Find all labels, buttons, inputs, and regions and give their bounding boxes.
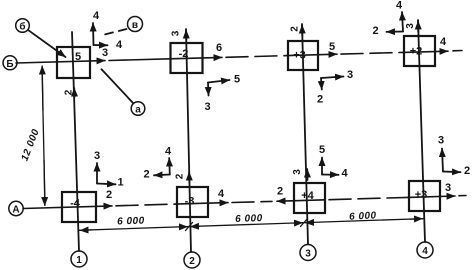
- svg-text:4: 4: [440, 36, 447, 48]
- svg-text:5: 5: [234, 74, 240, 86]
- svg-text:3: 3: [438, 135, 444, 147]
- svg-text:6 000: 6 000: [235, 213, 263, 225]
- svg-text:2: 2: [372, 25, 378, 37]
- svg-text:2: 2: [64, 89, 75, 95]
- svg-text:3: 3: [292, 169, 303, 175]
- svg-text:3: 3: [347, 69, 353, 81]
- svg-text:в: в: [132, 20, 138, 31]
- svg-text:-3: -3: [185, 196, 195, 208]
- svg-text:-4: -4: [70, 198, 81, 210]
- svg-text:5: 5: [319, 144, 325, 156]
- svg-text:3: 3: [204, 101, 210, 113]
- svg-text:2: 2: [317, 94, 323, 106]
- svg-text:4: 4: [93, 10, 100, 22]
- svg-text:2: 2: [143, 169, 149, 181]
- svg-text:4: 4: [165, 146, 172, 158]
- svg-text:6: 6: [216, 42, 222, 54]
- svg-text:А: А: [12, 205, 19, 216]
- svg-text:Б: Б: [6, 59, 13, 70]
- svg-text:2: 2: [464, 165, 470, 177]
- svg-text:3: 3: [445, 182, 451, 194]
- svg-text:3: 3: [405, 23, 416, 29]
- svg-text:2: 2: [290, 26, 301, 32]
- svg-text:+4: +4: [301, 190, 314, 202]
- svg-text:3: 3: [171, 30, 182, 36]
- svg-text:4: 4: [341, 168, 348, 180]
- svg-text:5: 5: [329, 41, 335, 53]
- svg-text:2: 2: [277, 186, 283, 198]
- svg-text:+3: +3: [293, 50, 306, 62]
- svg-text:2: 2: [175, 173, 186, 179]
- svg-text:3: 3: [305, 249, 311, 260]
- svg-text:1: 1: [76, 255, 82, 266]
- svg-text:-2: -2: [179, 48, 189, 60]
- svg-text:12 000: 12 000: [20, 127, 42, 162]
- svg-text:3: 3: [102, 47, 108, 59]
- svg-text:+3: +3: [415, 189, 428, 201]
- svg-text:4: 4: [116, 39, 123, 51]
- svg-text:2: 2: [189, 256, 195, 267]
- svg-text:6 000: 6 000: [117, 216, 145, 228]
- svg-text:2: 2: [106, 189, 112, 201]
- svg-text:1: 1: [117, 177, 123, 189]
- svg-text:а: а: [135, 105, 141, 116]
- svg-text:4: 4: [218, 188, 225, 200]
- svg-text:4: 4: [422, 246, 428, 257]
- svg-text:3: 3: [94, 150, 100, 162]
- svg-text:4: 4: [396, 0, 403, 12]
- svg-text:+2: +2: [410, 46, 423, 58]
- svg-text:6 000: 6 000: [349, 210, 377, 222]
- svg-text:б: б: [19, 21, 25, 33]
- svg-text:5: 5: [75, 51, 81, 63]
